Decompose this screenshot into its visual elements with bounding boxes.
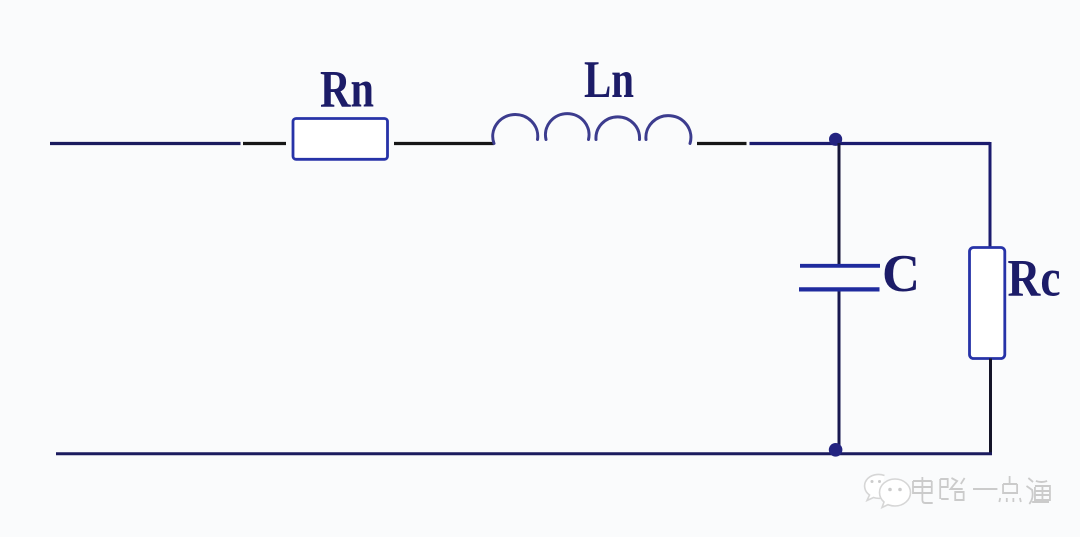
svg-text:Ln: Ln [584,51,634,109]
svg-text:Rn: Rn [320,61,374,119]
wire: black segment inductor to node [697,142,747,145]
wire: top-left navy segment [50,142,241,145]
capacitor C [800,264,880,268]
wire: navy segment node to right corner [750,142,991,145]
resistor Rc [970,248,1005,359]
wire: right vertical lower [989,359,992,454]
wire: black segment resistor to inductor [394,142,494,145]
点 [999,476,1021,502]
watermark text 电路一点通 (hand-drawn, light gray) [913,476,1050,504]
wire: top black segment into resistor [243,142,286,145]
node A junction dot (top) [829,133,842,146]
wire: right vertical upper [989,142,992,248]
svg-text:Rc: Rc [1008,249,1061,307]
一 [973,488,997,490]
node B junction dot (bottom) [829,443,843,457]
svg-text:C: C [882,245,920,303]
wire: capacitor top lead [838,143,841,265]
inductor Ln [493,114,691,144]
watermark icon (wechat bubbles) [865,474,911,507]
电 [913,477,933,503]
wire: capacitor bottom lead [838,292,841,453]
wire: bottom navy [56,452,992,455]
resistor Rn [293,119,388,160]
路 [940,478,964,500]
通 [1026,478,1049,504]
